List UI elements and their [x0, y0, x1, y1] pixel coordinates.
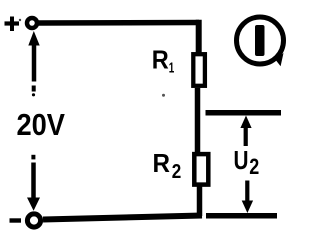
svg-text:R: R [152, 45, 169, 75]
svg-text:1: 1 [169, 60, 175, 77]
svg-text:2: 2 [172, 161, 182, 183]
svg-text:R: R [153, 148, 171, 178]
svg-text:20V: 20V [17, 107, 66, 142]
svg-text:U: U [234, 145, 249, 175]
svg-text:2: 2 [249, 154, 259, 179]
